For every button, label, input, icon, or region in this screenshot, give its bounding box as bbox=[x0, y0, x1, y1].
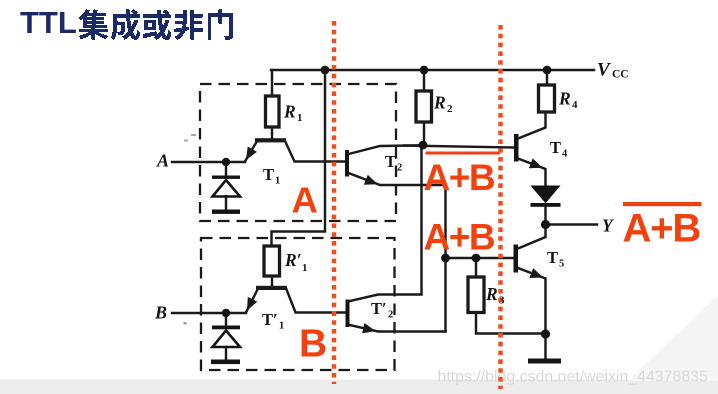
label R1 bbox=[283, 102, 303, 125]
svg-text:R: R bbox=[558, 89, 571, 109]
wire T1' emitter diagonal bbox=[246, 290, 258, 313]
svg-text:1: 1 bbox=[279, 321, 284, 332]
svg-text:https://blog.csdn.net/weixin_4: https://blog.csdn.net/weixin_44378835 bbox=[438, 369, 708, 386]
wire T2 collector bbox=[349, 145, 424, 154]
junction Y node bbox=[541, 220, 550, 229]
wire T4 collector to R4 bbox=[518, 112, 546, 139]
svg-text:R: R bbox=[433, 93, 446, 113]
junction rail-R2 bbox=[420, 66, 429, 75]
svg-text:T′: T′ bbox=[262, 310, 278, 329]
wire T5 collector to Y node bbox=[518, 225, 546, 249]
svg-text:A: A bbox=[292, 180, 318, 221]
svg-text:1: 1 bbox=[302, 262, 308, 274]
wire T1 collector to T2 base bbox=[286, 142, 346, 162]
ground bar (B cell) bbox=[211, 360, 240, 365]
resistor R'1 bbox=[264, 246, 280, 276]
junction ground node bbox=[541, 329, 550, 338]
svg-text:T: T bbox=[550, 138, 561, 157]
dashed cell box B bbox=[201, 238, 395, 370]
transistor T1' emitter arrow bbox=[247, 297, 257, 311]
wire diode D4 to Y node bbox=[544, 207, 546, 225]
svg-text:A+B: A+B bbox=[623, 207, 701, 251]
svg-text:A: A bbox=[156, 151, 169, 171]
wire T4 emitter to diode D4 bbox=[518, 159, 546, 187]
wire input B bbox=[172, 312, 246, 314]
svg-text:T: T bbox=[547, 248, 558, 267]
wire diode DB to ground bbox=[225, 347, 227, 360]
ground symbol (output stage) bbox=[528, 359, 561, 364]
wire emitter bus vertical bbox=[444, 185, 446, 332]
svg-text:2: 2 bbox=[447, 103, 453, 115]
wire R3 top feed bbox=[475, 258, 477, 277]
svg-text:2: 2 bbox=[397, 163, 402, 174]
svg-text:B: B bbox=[299, 323, 327, 366]
transistor T4 base bar bbox=[514, 134, 519, 162]
wire Vcc feed to lower cell bbox=[272, 70, 326, 246]
label R4 bbox=[558, 89, 578, 112]
label T1' bbox=[262, 310, 284, 332]
wire T2' emitter bbox=[350, 325, 446, 332]
label Vcc bbox=[597, 60, 629, 81]
label T4 bbox=[550, 138, 568, 160]
svg-text:V: V bbox=[597, 60, 611, 81]
transistor T1 base bar bbox=[255, 138, 286, 142]
output overline bbox=[623, 202, 702, 206]
svg-text:R: R bbox=[485, 284, 498, 304]
label R2 bbox=[433, 93, 453, 116]
wire R4 top feed bbox=[546, 70, 548, 85]
wire R2 bottom to node1 bbox=[423, 122, 425, 145]
transistor T2 emitter arrow bbox=[364, 175, 378, 185]
red dotted divider 1 bbox=[332, 21, 337, 384]
red dotted divider 2 bbox=[498, 25, 503, 389]
wire R1 top feed bbox=[271, 70, 273, 96]
wire R3 bottom to ground node bbox=[476, 313, 546, 334]
label T5 bbox=[547, 248, 564, 270]
wire diode DA anode stub bbox=[225, 162, 227, 176]
wire T2 emitter bbox=[349, 173, 446, 185]
dashed cell box A bbox=[200, 84, 396, 221]
wire diode DB anode stub bbox=[225, 313, 227, 326]
bottom gray band bbox=[0, 380, 718, 394]
svg-text:R: R bbox=[283, 102, 296, 122]
scan speck upper bbox=[184, 140, 188, 142]
transistor T5 base bar bbox=[514, 245, 519, 273]
resistor R1 bbox=[266, 96, 280, 127]
wire T1 emitter diagonal bbox=[245, 142, 257, 162]
transistor T1' base bar bbox=[256, 286, 287, 290]
label T2 bbox=[385, 152, 402, 174]
svg-text:CC: CC bbox=[612, 69, 629, 81]
svg-text:A+B: A+B bbox=[424, 217, 495, 258]
diode DB (input clamp, B) bbox=[212, 326, 240, 348]
overline of A+B at collector bus bbox=[426, 152, 501, 155]
svg-text:T: T bbox=[385, 152, 396, 171]
svg-text:1: 1 bbox=[275, 176, 280, 187]
scan speck upper2 bbox=[191, 134, 196, 136]
svg-text:R′: R′ bbox=[284, 250, 302, 270]
svg-text:1: 1 bbox=[297, 112, 303, 124]
svg-text:5: 5 bbox=[559, 259, 564, 270]
transistor T1 emitter arrow bbox=[246, 147, 257, 161]
scan speck lower bbox=[184, 322, 187, 325]
junction rail-R4 bbox=[543, 66, 552, 75]
wire T1' collector to T2' base bbox=[287, 290, 347, 313]
label T2' bbox=[371, 299, 393, 321]
resistor R2 bbox=[416, 91, 432, 122]
svg-text:T: T bbox=[263, 165, 274, 184]
transistor T4 emitter arrow bbox=[529, 158, 543, 168]
svg-text:2: 2 bbox=[388, 310, 393, 321]
wire Vcc rail bbox=[271, 69, 594, 71]
resistor R4 bbox=[539, 85, 555, 112]
wire R1 bottom to T1 base bbox=[271, 127, 273, 139]
title CJK 集成或非门 (traced) bbox=[79, 9, 233, 40]
wire R2 top feed bbox=[423, 70, 425, 91]
transistor T5 emitter arrow bbox=[529, 268, 543, 278]
junction node1 bbox=[419, 141, 428, 150]
bottom-right diagonal swoosh bbox=[628, 295, 718, 381]
label R'1 bbox=[284, 250, 308, 274]
transistor T2' base bar bbox=[346, 300, 350, 328]
wire diode DA to ground bbox=[225, 196, 227, 210]
wire R'1 bottom to T1' base bbox=[271, 276, 273, 287]
svg-text:T′: T′ bbox=[371, 299, 387, 318]
resistor R3 bbox=[468, 277, 484, 313]
junction A-DA bbox=[222, 158, 230, 166]
junction node2-R3 bbox=[472, 254, 481, 263]
svg-text:3: 3 bbox=[499, 295, 505, 307]
wire node1 to T4 base bbox=[404, 146, 514, 148]
diode DA (input clamp, A) bbox=[212, 176, 240, 197]
transistor T2' emitter arrow bbox=[362, 323, 375, 333]
junction rail-feed bbox=[321, 66, 330, 75]
svg-text:B: B bbox=[154, 303, 167, 323]
wire output Y bbox=[546, 223, 598, 225]
wire input A bbox=[172, 161, 245, 163]
label T1 bbox=[263, 165, 280, 187]
wire node2 to T5 base bbox=[446, 257, 514, 259]
junction B-DB bbox=[222, 309, 230, 317]
transistor T2 base bar bbox=[345, 150, 349, 177]
svg-text:4: 4 bbox=[562, 149, 568, 160]
svg-text:TTL: TTL bbox=[20, 5, 77, 40]
wire T2' collector riser to node1 bbox=[350, 145, 422, 301]
svg-text:A+B: A+B bbox=[424, 157, 495, 198]
wire T5 emitter to ground node bbox=[518, 268, 546, 334]
ground bar (A cell) bbox=[212, 210, 240, 214]
wire ground stub bbox=[544, 334, 546, 358]
svg-text:4: 4 bbox=[572, 99, 578, 111]
diode D4 (level shift, filled) bbox=[531, 186, 561, 207]
junction node2 bbox=[441, 254, 450, 263]
label R3 bbox=[485, 284, 505, 307]
